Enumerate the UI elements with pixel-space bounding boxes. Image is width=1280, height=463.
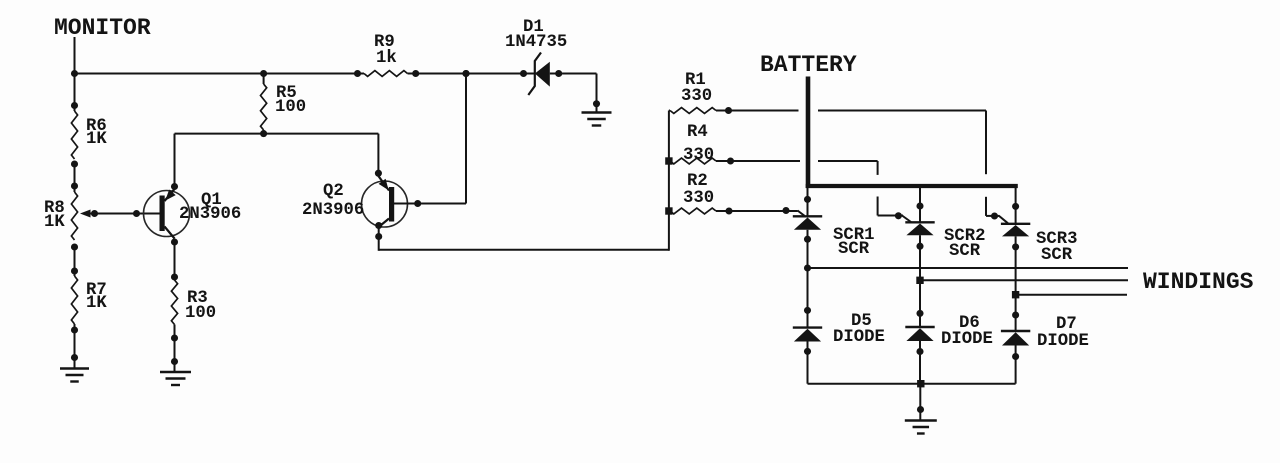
diode D1 1N4735 (zener) bbox=[505, 18, 567, 95]
wire SCR2 cathode down to D6 bbox=[919, 235, 921, 327]
wire SCR3 gate diagonal bbox=[999, 216, 1008, 223]
svg-text:1K: 1K bbox=[44, 213, 65, 232]
svg-text:1K: 1K bbox=[86, 130, 107, 149]
node R5 bottom bbox=[260, 130, 267, 137]
resistor R7 bbox=[71, 247, 107, 368]
svg-text:R4: R4 bbox=[687, 123, 708, 142]
wire D6 cathode to bottom rail bbox=[919, 341, 921, 384]
node bottom rail center bbox=[917, 380, 924, 387]
wire left vertical of R1/R4/R2 block bbox=[668, 111, 670, 251]
transistor Q1 2N3906 bbox=[144, 189, 242, 239]
wire D1 to ground corner bbox=[550, 74, 597, 113]
node SCR3 gate bbox=[991, 212, 998, 219]
transistor Q2 2N3906 bbox=[302, 176, 408, 227]
ground at D1 bbox=[582, 111, 612, 113]
wire R4 drop to SCR2 gate (lower) bbox=[877, 197, 879, 216]
node Q2 collector lead bbox=[375, 233, 382, 240]
wire SCR2 gate diagonal bbox=[902, 216, 911, 223]
wire R1 drop to SCR3 gate (upper) bbox=[985, 111, 987, 175]
node Q2 emitter bbox=[375, 170, 382, 177]
svg-text:1N4735: 1N4735 bbox=[505, 33, 567, 52]
wire Q2 collector to resistor block bbox=[379, 249, 669, 251]
node above ground D1 bbox=[593, 100, 600, 107]
wire Q1 emitter to R5 bottom to Q2 emitter bbox=[175, 133, 379, 135]
wire battery thick stem bbox=[806, 77, 811, 189]
node top rail / monitor junction bbox=[71, 70, 78, 77]
svg-text:2N3906: 2N3906 bbox=[179, 205, 241, 224]
thyristor SCR1 bbox=[793, 186, 875, 259]
svg-text:330: 330 bbox=[683, 146, 714, 165]
resistor R2 bbox=[665, 172, 797, 215]
node Q1 emitter bbox=[171, 183, 178, 190]
node R2 to SCR1 gate bbox=[782, 207, 789, 214]
node base riser at rail bbox=[462, 70, 469, 77]
svg-text:MONITOR: MONITOR bbox=[54, 15, 151, 41]
resistor R6 bbox=[71, 74, 107, 168]
node Q1 collector bbox=[171, 238, 178, 245]
svg-text:DIODE: DIODE bbox=[941, 330, 993, 349]
wire D5 cathode to bottom rail bbox=[807, 342, 809, 384]
wire SCR3 cathode down to D7 bbox=[1015, 236, 1017, 331]
wire SCR1 gate diagonal bbox=[798, 211, 805, 216]
node above bottom ground bbox=[917, 406, 924, 413]
wire SCR1 cathode down to D5 bbox=[807, 230, 809, 328]
wire R1 row right of battery line bbox=[818, 110, 986, 112]
node SCR2 gate bbox=[895, 212, 902, 219]
node Q2 collector bbox=[375, 222, 382, 229]
ground below R3 bbox=[160, 371, 191, 373]
thyristor SCR3 bbox=[1001, 186, 1078, 265]
diode D5 bbox=[793, 312, 885, 355]
node R5 top bbox=[260, 70, 267, 77]
svg-text:1K: 1K bbox=[86, 294, 107, 313]
wire top rail from monitor to R9 bbox=[75, 73, 365, 75]
wire SCR2 gate horizontal bbox=[878, 215, 903, 217]
wire Q2 base riser to top rail bbox=[465, 74, 467, 204]
svg-text:SCR: SCR bbox=[1041, 246, 1073, 265]
ground bottom center bbox=[905, 419, 937, 421]
wire R8 wiper to Q1 base bbox=[80, 210, 160, 218]
node D7 anode bbox=[1012, 311, 1019, 318]
resistor R8 (with wiper arrow) bbox=[44, 164, 78, 251]
wire SCR3 gate horizontal bbox=[986, 215, 1000, 217]
wire R4 drop to SCR2 gate (upper) bbox=[877, 161, 879, 175]
wire R4 row right of battery line bbox=[818, 160, 878, 162]
diode D6 bbox=[905, 314, 993, 355]
svg-text:BATTERY: BATTERY bbox=[760, 52, 857, 78]
svg-text:100: 100 bbox=[275, 98, 306, 117]
wire Q2 collector down bbox=[378, 227, 380, 251]
wire MONITOR stem bbox=[74, 37, 76, 74]
thyristor SCR2 bbox=[905, 186, 985, 261]
node D6 anode bbox=[916, 310, 923, 317]
resistor R5 bbox=[261, 74, 307, 134]
node rail to Q2 base riser bbox=[462, 70, 469, 77]
wire ground stem bottom bbox=[919, 384, 921, 421]
node D5 anode bbox=[804, 307, 811, 314]
resistor R3 bbox=[171, 280, 216, 372]
resistor R1 bbox=[669, 71, 799, 114]
node Q2 base lead bbox=[414, 200, 421, 207]
wire Q2 emitter up bbox=[377, 134, 379, 176]
wire winding line 3 bbox=[1016, 294, 1127, 296]
wire bottom rail bbox=[808, 383, 1016, 385]
node wiper junction 1 bbox=[91, 210, 98, 217]
wire winding line 2 bbox=[920, 279, 1128, 281]
node winding tap 3 bbox=[1012, 291, 1019, 298]
svg-text:Q2: Q2 bbox=[323, 182, 344, 201]
svg-text:330: 330 bbox=[683, 189, 714, 208]
wire Q1 collector down bbox=[174, 239, 176, 280]
resistor R4 bbox=[665, 123, 800, 165]
svg-text:330: 330 bbox=[681, 87, 712, 106]
wire rail R9 to D1 bbox=[408, 73, 535, 75]
node winding tap 2 bbox=[916, 277, 923, 284]
ground left column bbox=[60, 367, 89, 369]
svg-text:100: 100 bbox=[185, 304, 216, 323]
wire Q1 emitter up bbox=[174, 134, 176, 189]
svg-text:1k: 1k bbox=[376, 49, 397, 68]
node winding tap 1 bbox=[804, 264, 811, 271]
diode D7 bbox=[1001, 315, 1089, 360]
svg-text:WINDINGS: WINDINGS bbox=[1143, 269, 1254, 295]
node R3 top bbox=[171, 273, 178, 280]
wire R1 drop to SCR3 gate (lower) bbox=[985, 197, 987, 216]
svg-text:2N3906: 2N3906 bbox=[302, 201, 364, 220]
svg-text:DIODE: DIODE bbox=[833, 328, 885, 347]
wire thick bus rail bbox=[806, 184, 1018, 188]
svg-text:DIODE: DIODE bbox=[1037, 332, 1089, 351]
wire Q2 base to vertical riser bbox=[394, 203, 466, 205]
svg-text:SCR: SCR bbox=[838, 240, 870, 259]
wire winding line 1 bbox=[808, 267, 1129, 269]
node wiper junction 2 bbox=[133, 210, 140, 217]
resistor R9 bbox=[354, 33, 419, 77]
wire D7 cathode to bottom rail bbox=[1015, 346, 1017, 384]
svg-text:SCR: SCR bbox=[949, 242, 981, 261]
